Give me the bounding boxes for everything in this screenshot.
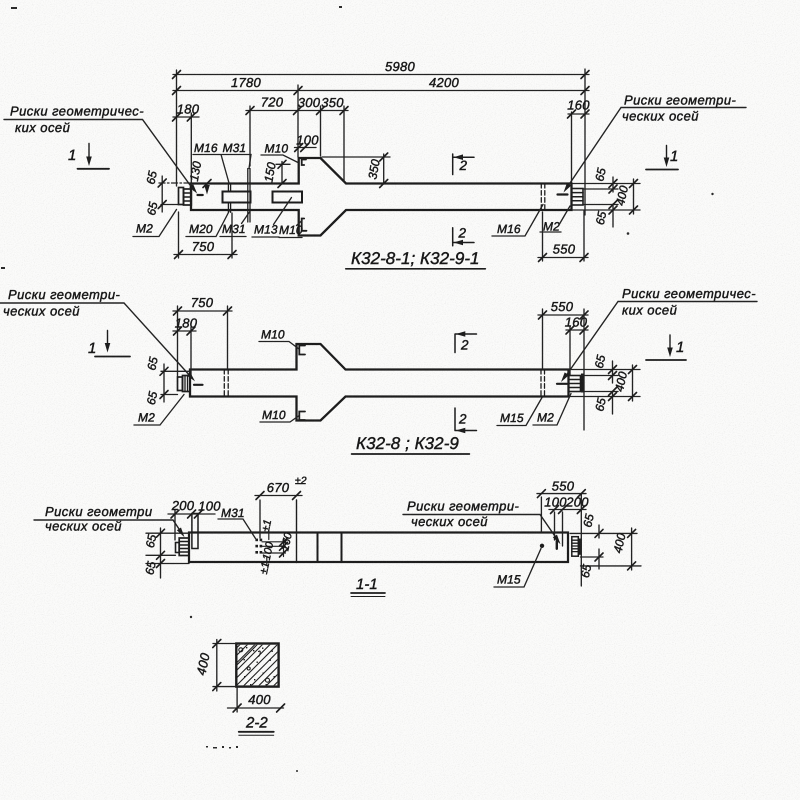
riska mark right B	[557, 383, 567, 385]
section mark 2 bottom A	[453, 228, 474, 246]
svg-text:350: 350	[365, 158, 382, 180]
concrete specks 2-2	[239, 648, 270, 682]
hook detail M10 bottom	[302, 219, 307, 231]
svg-text:2: 2	[458, 226, 467, 241]
dimension 400 left 2-2	[213, 640, 236, 692]
svg-text:ческих осей: ческих осей	[3, 304, 80, 319]
joint line 1-1 a	[317, 533, 319, 563]
svg-text:±2: ±2	[295, 475, 307, 487]
svg-text:ческих осей: ческих осей	[622, 109, 699, 124]
dimension 670 +-2 1-1	[255, 496, 302, 539]
riska mark left B	[194, 384, 203, 386]
dimension 65/65 left 1-1	[146, 528, 189, 578]
dimension 180	[173, 113, 199, 186]
point M15 1-1	[540, 544, 544, 548]
riska mark right 1-1	[556, 541, 558, 549]
svg-text:Риски геометричес-: Риски геометричес-	[10, 104, 144, 119]
anchor bolt M2 left (nut with thread lines)	[184, 189, 192, 205]
svg-text:100: 100	[261, 540, 277, 561]
dimension 550 right 1-1	[537, 494, 586, 586]
stud M31 double line	[248, 169, 250, 223]
groove slot M13 right	[273, 192, 303, 203]
svg-text:2: 2	[460, 338, 469, 353]
svg-text:720: 720	[261, 95, 284, 110]
svg-text:550: 550	[552, 479, 575, 494]
anchor bolt left 1-1 (plate)	[176, 543, 180, 553]
hidden stud M31 (dashed) B	[224, 370, 228, 397]
svg-text:ческих осей: ческих осей	[45, 519, 122, 534]
svg-text:2: 2	[459, 158, 468, 173]
svg-text:400: 400	[248, 692, 271, 707]
dimension 180 B	[173, 327, 196, 376]
svg-text:Риски геометри-: Риски геометри-	[407, 499, 520, 514]
stud M16/M20 double line	[228, 184, 230, 213]
svg-text:65: 65	[143, 169, 160, 185]
svg-text:65: 65	[143, 533, 160, 549]
anchor bolt right 1-1 (threaded comb)	[572, 537, 579, 557]
svg-text:65: 65	[580, 512, 597, 528]
anchor bolt right 1-1 (plate)	[578, 539, 581, 555]
svg-text:М10: М10	[262, 408, 286, 422]
svg-text:М10: М10	[279, 223, 303, 237]
svg-text:М16: М16	[194, 141, 218, 155]
svg-text:160: 160	[279, 531, 295, 552]
hook detail M10 bottom B	[299, 412, 305, 421]
svg-text:Риски геометричес-: Риски геометричес-	[622, 286, 756, 301]
svg-text:1: 1	[676, 339, 684, 356]
svg-text:М10: М10	[265, 142, 289, 156]
anchor bolt M2 left B (nut, vertical teeth)	[183, 376, 191, 392]
svg-text:Риски геометри-: Риски геометри-	[8, 287, 121, 302]
svg-text:ких осей: ких осей	[622, 303, 677, 318]
dimension 100/160 +-1 cluster 1-1	[262, 538, 286, 557]
dimension 200/100 1-1	[168, 510, 215, 540]
dimension 550 B	[538, 309, 588, 430]
dimension 130 (riska offset)	[206, 184, 208, 191]
svg-text:400: 400	[193, 651, 212, 677]
svg-text:200: 200	[171, 498, 195, 513]
svg-text:65: 65	[592, 166, 609, 182]
svg-text:550: 550	[551, 299, 574, 314]
groove slot M13 left	[223, 192, 251, 203]
hidden stud M15 right (dashed) B	[541, 370, 545, 397]
svg-text:550: 550	[553, 242, 576, 257]
svg-text:1780: 1780	[231, 75, 262, 90]
svg-text:ких осей: ких осей	[15, 120, 70, 135]
hook detail M10 top B	[299, 346, 305, 355]
svg-text:1: 1	[68, 147, 76, 164]
svg-text:М20: М20	[189, 222, 213, 236]
svg-text:65: 65	[593, 210, 610, 226]
dimension 65/400/65 right 1-1	[570, 525, 641, 570]
dimension 65/65 left A	[159, 182, 190, 184]
svg-text:100: 100	[198, 499, 221, 514]
svg-text:К32-8 ; К32-9: К32-8 ; К32-9	[356, 434, 459, 453]
body outline 1-1	[189, 533, 568, 563]
dimension 750	[174, 212, 237, 258]
svg-text:1: 1	[88, 340, 96, 357]
svg-text:400: 400	[613, 184, 631, 207]
stud plate M31 above 1-1	[192, 514, 198, 549]
hidden stud M16 right (dashed)	[541, 184, 545, 211]
svg-text:130: 130	[187, 160, 204, 182]
section square 2-2	[236, 644, 278, 687]
svg-text:М15: М15	[500, 411, 524, 425]
svg-text:М16: М16	[497, 222, 521, 236]
svg-text:±1: ±1	[260, 518, 274, 532]
svg-text:М13: М13	[254, 223, 278, 237]
svg-text:750: 750	[192, 239, 215, 254]
dimension 160 B	[566, 326, 588, 375]
section mark 2 bottom B	[455, 408, 477, 431]
dimension 550 right	[538, 211, 588, 262]
column body outline B	[190, 344, 569, 421]
dimension 100 (hook offset)	[295, 147, 317, 149]
dimension 5980	[173, 69, 589, 215]
svg-text:100: 100	[544, 495, 567, 510]
dimension 65/400/65 right A	[573, 177, 640, 227]
svg-text:150: 150	[261, 161, 278, 183]
section mark 2 top B	[455, 334, 477, 353]
svg-text:65: 65	[144, 390, 161, 406]
svg-text:2: 2	[458, 412, 467, 427]
anchor bolt M2 left (plate)	[179, 188, 184, 205]
anchor bolt left 1-1 (nut with teeth)	[179, 538, 189, 556]
svg-text:1: 1	[670, 148, 678, 165]
svg-text:400: 400	[612, 370, 630, 393]
dimension 1780 / 4200	[173, 90, 589, 92]
svg-text:4200: 4200	[429, 75, 460, 90]
svg-text:65: 65	[142, 560, 159, 576]
svg-text:100: 100	[296, 133, 319, 148]
svg-text:670: 670	[267, 480, 290, 495]
svg-text:М31: М31	[221, 506, 245, 520]
dimension 350	[324, 106, 348, 181]
svg-text:160: 160	[567, 98, 590, 113]
riska mark right A	[558, 193, 568, 195]
svg-text:180: 180	[175, 316, 198, 331]
svg-text:±1: ±1	[258, 561, 272, 575]
svg-text:200: 200	[565, 495, 589, 510]
svg-text:М2: М2	[138, 411, 155, 425]
dimension 160	[568, 112, 589, 182]
svg-text:180: 180	[177, 102, 200, 117]
svg-text:750: 750	[191, 295, 214, 310]
svg-text:ческих осей: ческих осей	[411, 514, 488, 529]
svg-text:М15: М15	[497, 573, 521, 587]
dimension 150 (vertical)	[276, 162, 290, 184]
dimension 750 B	[173, 306, 232, 376]
section mark 2 top A	[453, 154, 474, 175]
svg-text:65: 65	[592, 396, 609, 412]
hook detail M10 top	[302, 160, 306, 166]
dimension 350 (vertical at taper)	[322, 154, 390, 184]
svg-text:400: 400	[611, 532, 629, 555]
svg-text:К32-8-1; К32-9-1: К32-8-1; К32-9-1	[351, 249, 480, 268]
dimension 100/200 right 1-1	[549, 510, 586, 547]
riska mark left A	[198, 194, 203, 196]
svg-text:М2: М2	[537, 411, 554, 425]
dimension 300	[298, 85, 324, 157]
joint line 1-1 b	[341, 533, 343, 563]
anchor bolt M2 right B (threaded)	[569, 376, 581, 392]
dimension 65/400/65 right B	[570, 361, 640, 414]
svg-text:160: 160	[565, 315, 588, 330]
column body outline A	[191, 158, 572, 236]
svg-text:65: 65	[144, 200, 161, 216]
dimension 720	[246, 106, 300, 166]
svg-text:М31: М31	[223, 141, 247, 155]
svg-text:М31: М31	[222, 222, 246, 236]
svg-text:5980: 5980	[385, 59, 416, 74]
svg-text:350: 350	[321, 95, 344, 110]
svg-text:Риски геометри: Риски геометри	[45, 504, 153, 519]
svg-text:М2: М2	[136, 222, 153, 236]
svg-text:300: 300	[298, 95, 321, 110]
svg-text:М10: М10	[261, 328, 285, 342]
svg-text:65: 65	[592, 353, 609, 369]
M31 stud dots 1-1	[255, 539, 262, 554]
concrete hatch 2-2	[193, 636, 324, 692]
anchor bolt M2 right (threaded)	[572, 189, 584, 206]
svg-text:Риски геометри-: Риски геометри-	[624, 93, 737, 108]
dimension 65/65 left B	[161, 364, 190, 402]
svg-text:2-2: 2-2	[245, 715, 268, 732]
dimension 400 bottom 2-2	[228, 687, 284, 712]
anchor bolt M2 left B (plate)	[178, 377, 183, 391]
svg-text:65: 65	[144, 355, 161, 371]
svg-text:1-1: 1-1	[356, 576, 378, 593]
